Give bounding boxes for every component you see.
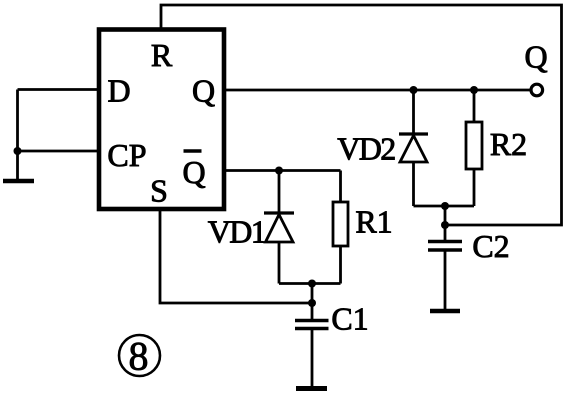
wire S to C1 — [160, 211, 312, 303]
svg-text:8: 8 — [129, 334, 149, 379]
svg-text:VD1: VD1 — [208, 214, 266, 250]
svg-text:C2: C2 — [472, 228, 509, 264]
terminal Q output circle — [531, 84, 543, 96]
svg-text:VD2: VD2 — [337, 131, 395, 167]
pin label Qbar — [182, 151, 205, 190]
svg-text:R2: R2 — [490, 126, 527, 162]
D flip-flop U1 body — [99, 30, 224, 210]
node junction VD1-R1-C1 — [308, 280, 316, 288]
wire R pin to top rail, top rail, right rail, bottom-right segment — [161, 5, 562, 225]
svg-text:R1: R1 — [355, 204, 392, 240]
wire CP input — [18, 150, 100, 153]
resistor R2 — [466, 90, 482, 206]
svg-text:C1: C1 — [331, 301, 368, 337]
node junction VD2-R2-C2 — [441, 202, 449, 210]
svg-text:D: D — [107, 73, 130, 109]
wire VD1/R1 bottom join — [279, 282, 341, 285]
svg-text:Q: Q — [524, 39, 547, 75]
capacitor C2 — [428, 242, 462, 310]
wire C2 stem — [444, 206, 447, 241]
resistor R1 — [333, 171, 348, 284]
diode VD1 — [264, 171, 294, 284]
node junction C2-right rail — [441, 221, 449, 229]
svg-text:R: R — [151, 37, 173, 73]
svg-text:CP: CP — [107, 137, 146, 173]
wire D input — [18, 88, 100, 91]
svg-text:Q: Q — [182, 154, 205, 190]
capacitor C1 — [295, 321, 329, 387]
node junction Qbar/VD1 — [275, 167, 283, 175]
ground (C1) — [296, 386, 327, 391]
node junction Q/VD2 — [410, 86, 418, 94]
wire C1 stem — [311, 284, 314, 321]
ground (left) — [3, 179, 34, 184]
figure number 8 circle — [119, 334, 160, 379]
wire left vertical D-CP-ground — [16, 90, 19, 180]
wire Qbar output — [224, 169, 341, 172]
node junction Q/R2 — [470, 86, 478, 94]
node junction S-C1 — [308, 299, 316, 307]
svg-text:S: S — [150, 173, 168, 209]
node junction D/CP/ground — [14, 147, 22, 155]
wire Q output — [224, 89, 530, 92]
diode VD2 — [399, 90, 428, 206]
ground (C2) — [430, 309, 460, 314]
svg-text:Q: Q — [192, 73, 215, 109]
wire VD2/R2 bottom join — [414, 205, 475, 208]
